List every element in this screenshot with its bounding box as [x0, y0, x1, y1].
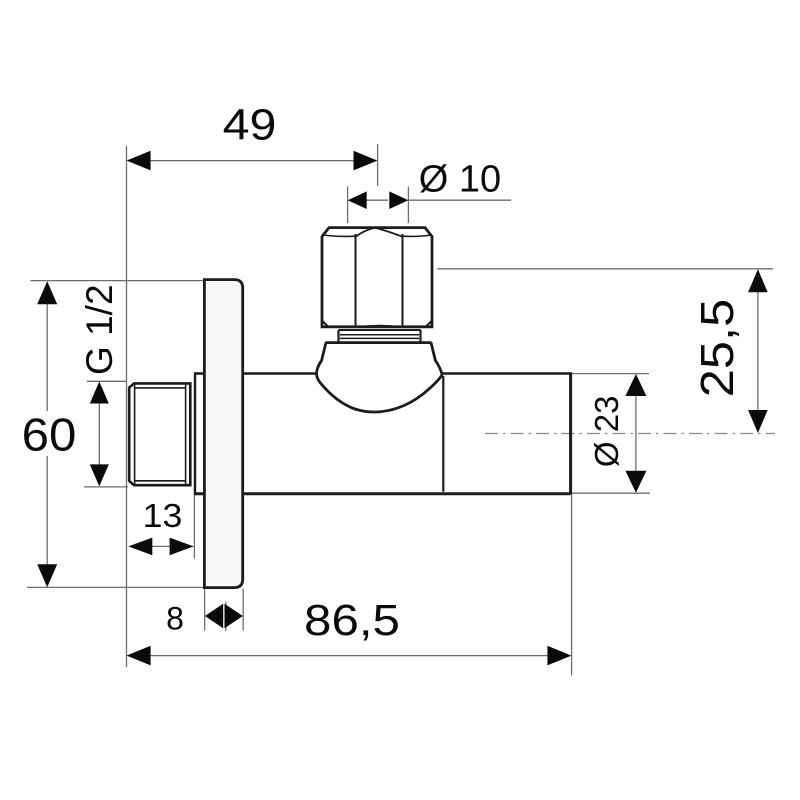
svg-text:Ø 23: Ø 23 — [588, 396, 625, 468]
svg-text:Ø 10: Ø 10 — [419, 159, 501, 201]
svg-text:G 1/2: G 1/2 — [79, 284, 120, 375]
svg-text:13: 13 — [143, 498, 183, 535]
svg-text:49: 49 — [223, 99, 277, 148]
svg-text:25,5: 25,5 — [692, 299, 743, 397]
svg-text:60: 60 — [22, 410, 77, 461]
svg-text:86,5: 86,5 — [304, 595, 400, 644]
svg-text:8: 8 — [166, 601, 184, 637]
